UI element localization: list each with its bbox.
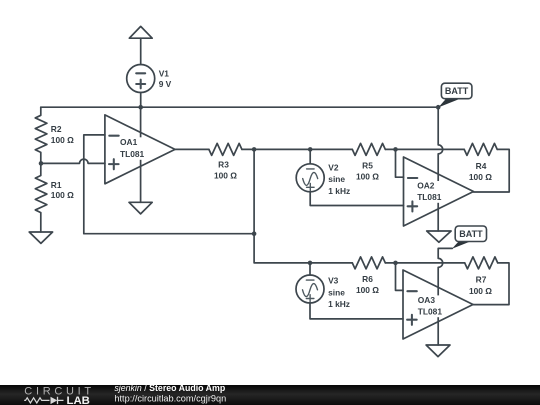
node junction OA2 -input tap — [393, 147, 398, 152]
svg-text:V2: V2 — [328, 163, 339, 173]
op-amp OA2 name/value labels — [416, 181, 445, 203]
svg-text:http://circuitlab.com/cgjr9qn: http://circuitlab.com/cgjr9qn — [114, 393, 226, 403]
svg-text:sine: sine — [328, 174, 345, 184]
node junction R3 output — [252, 147, 257, 152]
resistor R3 — [209, 143, 242, 155]
ground (left, below R1) — [29, 232, 52, 243]
wire top positive rail — [41, 106, 438, 108]
svg-text:100 Ω: 100 Ω — [51, 135, 74, 145]
svg-text:R3: R3 — [218, 159, 229, 169]
node junction V3 top — [308, 261, 313, 266]
node junction R2-R1 — [39, 161, 44, 166]
wire V2 to OA2 +input — [310, 192, 403, 206]
svg-text:9 V: 9 V — [159, 79, 172, 89]
voltage source V3 — [309, 263, 311, 275]
svg-text:100 Ω: 100 Ω — [214, 171, 237, 181]
svg-text:100 Ω: 100 Ω — [356, 172, 379, 182]
svg-text:1 kHz: 1 kHz — [328, 299, 350, 309]
node junction rail end — [436, 105, 441, 110]
node supply arrow above V1 — [140, 38, 142, 64]
wire R4 to OA2 output — [474, 149, 510, 192]
svg-text:V3: V3 — [328, 276, 339, 286]
wire OA1 output row — [175, 148, 209, 150]
svg-text:TL081: TL081 — [418, 307, 443, 317]
wire R5 to R4 (passes hop at x=438.2) — [385, 148, 464, 150]
wire R3 to R5 — [242, 148, 352, 150]
svg-text:TL081: TL081 — [120, 149, 145, 159]
wire OA1 feedback: minus input, down, along bottom — [84, 135, 254, 234]
node junction V2 top — [308, 147, 313, 152]
wire down to OA3 -input — [396, 263, 404, 291]
resistor R4 — [464, 143, 497, 155]
ground (below OA3) — [426, 345, 450, 357]
voltage source V2 — [309, 149, 311, 163]
resistor R5 — [352, 143, 385, 155]
svg-text:100 Ω: 100 Ω — [469, 286, 492, 296]
svg-text:OA3: OA3 — [418, 295, 436, 305]
wire OA1 +input row (with hop over feedback) — [41, 159, 105, 163]
op-amp OA3 — [403, 270, 473, 339]
svg-text:R4: R4 — [476, 161, 487, 171]
op-amp OA1 — [105, 115, 175, 184]
wire down to OA2 -input — [396, 149, 404, 177]
wire BATT2 to OA3 power with hop over lower row — [438, 248, 452, 345]
wire V3 to OA3 +input — [310, 303, 403, 319]
wire OA2 power vertical with hop over signal row — [438, 107, 443, 231]
ground (below OA2) — [427, 231, 451, 242]
svg-text:OA1: OA1 — [120, 137, 138, 147]
wire OA1 power vertical — [140, 107, 142, 202]
svg-text:R1: R1 — [51, 180, 62, 190]
resistor R2 — [35, 107, 47, 163]
svg-text:V1: V1 — [159, 68, 170, 78]
node junction V1-rail — [138, 105, 143, 110]
svg-text:R7: R7 — [476, 275, 487, 285]
net flag BATT (lower) — [452, 242, 470, 249]
svg-text:100 Ω: 100 Ω — [356, 285, 379, 295]
wire center column down to lower row — [254, 149, 352, 263]
resistor R7 — [465, 257, 498, 269]
logo diode — [51, 397, 58, 404]
resistor R6 — [352, 257, 385, 269]
op-amp OA2 — [404, 157, 474, 226]
voltage source V1 — [127, 65, 155, 93]
node junction OA3 -input tap — [393, 261, 398, 266]
resistor R1 — [35, 163, 47, 232]
svg-text:BATT: BATT — [459, 229, 483, 239]
svg-text:R5: R5 — [362, 160, 373, 170]
svg-text:BATT: BATT — [445, 86, 469, 96]
svg-text:100 Ω: 100 Ω — [51, 190, 74, 200]
op-amp OA1 name/value labels — [119, 137, 147, 160]
svg-text:TL081: TL081 — [417, 192, 442, 202]
wire R7 to OA3 output — [473, 263, 510, 305]
logo resistor zigzag — [24, 398, 49, 403]
svg-text:sjenkin / Stereo Audio Amp: sjenkin / Stereo Audio Amp — [114, 383, 225, 393]
svg-text:100 Ω: 100 Ω — [469, 172, 492, 182]
ground (below OA1) — [129, 202, 152, 214]
svg-text:R6: R6 — [362, 274, 373, 284]
svg-text:1 kHz: 1 kHz — [328, 186, 350, 196]
op-amp OA3 name/value labels — [416, 295, 445, 317]
wire R6 to R7 (passes hop) — [385, 262, 464, 264]
svg-text:sine: sine — [328, 287, 345, 297]
svg-text:OA2: OA2 — [417, 181, 435, 191]
svg-text:LAB: LAB — [67, 395, 90, 405]
svg-text:R2: R2 — [51, 124, 62, 134]
node junction feedback tap — [252, 231, 257, 236]
net flag BATT (top) — [438, 99, 458, 108]
